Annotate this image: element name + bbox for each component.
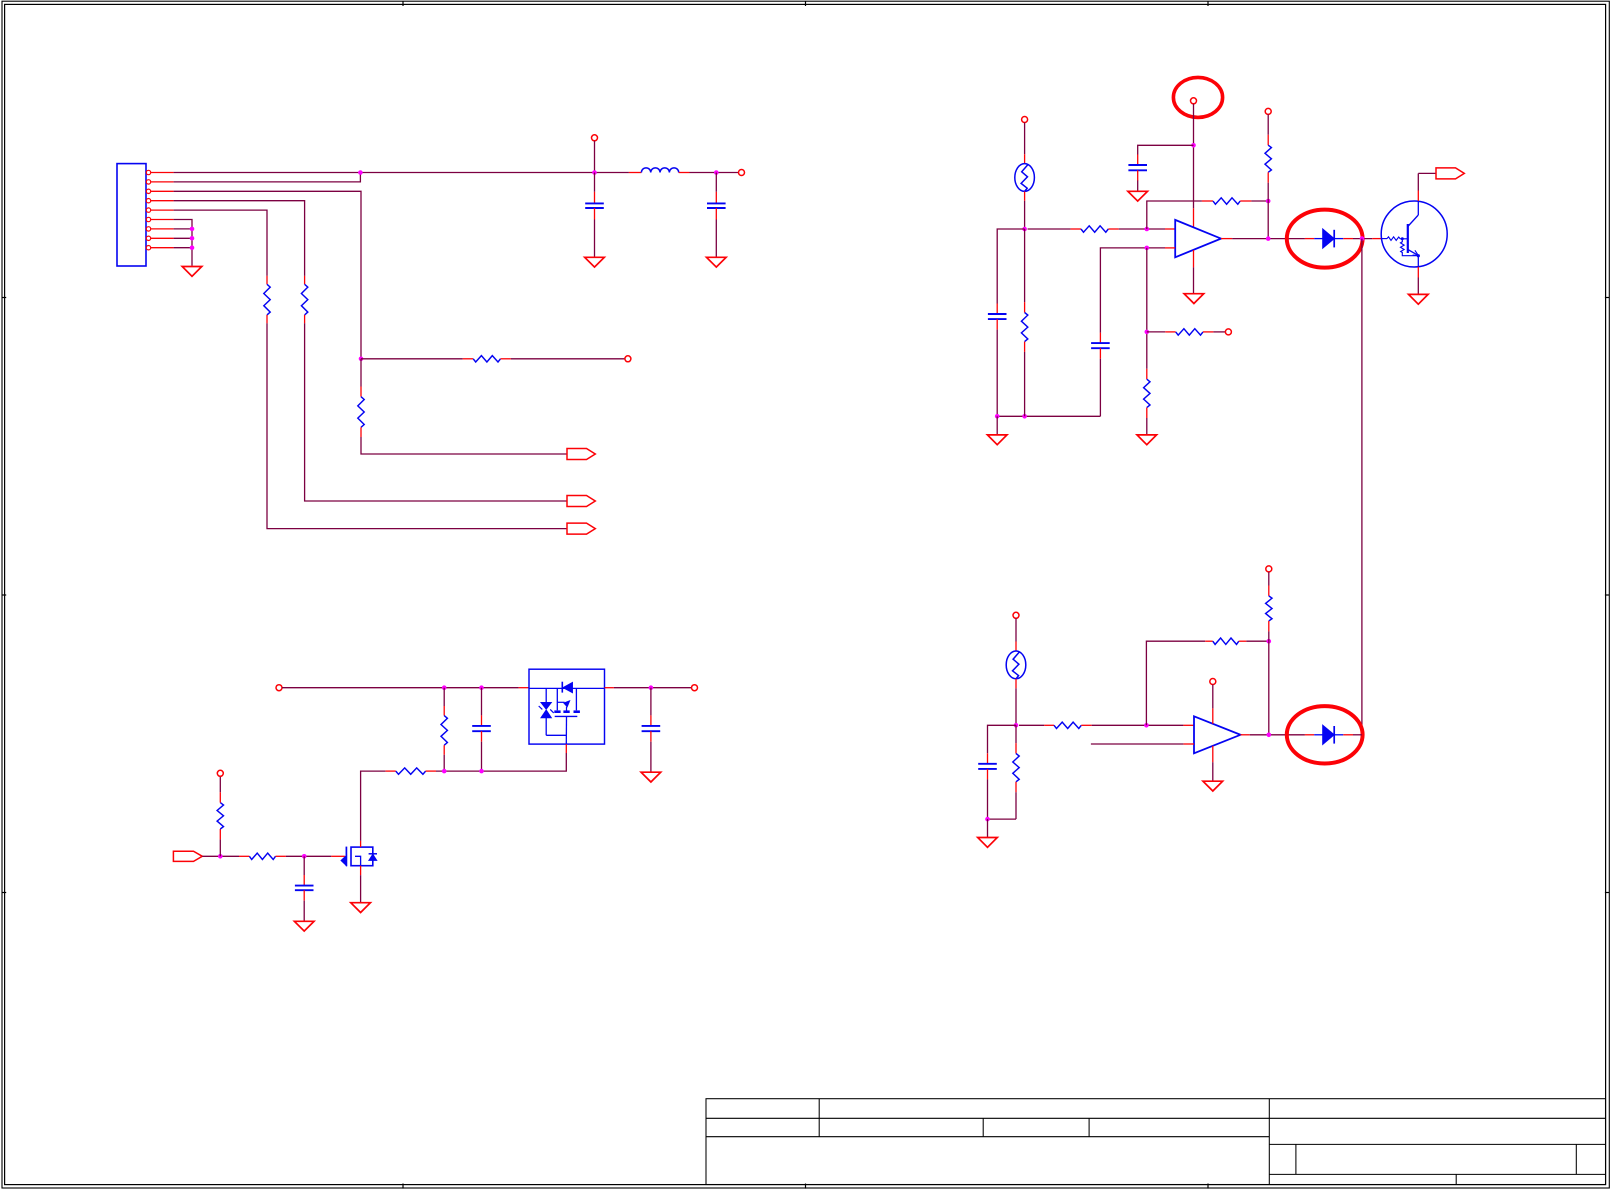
protection IC U2 pin bottom [565, 744, 567, 753]
zone tick right 1 [1605, 297, 1610, 299]
op-amp U1 [1175, 220, 1221, 257]
wire feedback2 up [1146, 641, 1205, 725]
capacitor C5 [1137, 155, 1139, 166]
inductor L1 [629, 172, 642, 174]
terminal VIN2 [276, 685, 282, 691]
terminal VOUT2 [692, 685, 698, 691]
resistor R17 input [1019, 724, 1044, 726]
title block main divider [1268, 1099, 1270, 1185]
ground C7 [294, 921, 314, 931]
node junction inv2 [1144, 723, 1149, 728]
wire terminal to rail [594, 141, 596, 173]
connector J1 pin 2 [146, 180, 150, 184]
wire L1 to C2 [690, 172, 739, 174]
node junction rail2/C3 [479, 769, 484, 774]
node junction pin7 [190, 227, 195, 232]
terminal offset [1225, 329, 1231, 335]
wire terminal to RT2 [1015, 618, 1017, 641]
zone tick top 2 [805, 1, 807, 6]
node junction pin3/R3 [359, 357, 364, 362]
wire noninv2 hanging [1091, 743, 1184, 745]
wire R1 to port [305, 323, 567, 501]
wire node B west/down [988, 725, 1017, 753]
resistor R4 [360, 359, 362, 387]
title block row line 4 (right) [1269, 1173, 1605, 1175]
transistor Q2 [331, 855, 345, 857]
zone tick bottom 1 [402, 1184, 404, 1189]
node junction feedback2 [1267, 639, 1272, 644]
wire feedback2 node down [1268, 641, 1270, 735]
title block divider E [1575, 1144, 1577, 1174]
node junction output/feedback [1266, 236, 1271, 241]
wire R11 to inv input [1119, 228, 1165, 230]
wire node down long [1361, 239, 1363, 735]
title block divider A [818, 1099, 820, 1137]
wire R3 to terminal [511, 358, 625, 360]
wire R17 to inv input [1092, 724, 1184, 726]
ground connector [182, 267, 202, 277]
resistor R7 pullup [219, 839, 221, 856]
terminal V+ supply [1191, 98, 1197, 104]
op-amp U3 inv pin [1183, 724, 1194, 726]
terminal pullup supply [217, 770, 223, 776]
title block divider B [982, 1118, 984, 1136]
op-amp U1 power pin top [1193, 208, 1195, 227]
op-amp U1 inv pin [1165, 228, 1175, 230]
node junction feedback [1266, 199, 1271, 204]
connector J1 pin 8 [146, 236, 150, 240]
ground rail2 [987, 819, 989, 837]
node junction D1/Q1 [1360, 236, 1365, 241]
title block divider C [1088, 1118, 1090, 1136]
wire feedback node down [1267, 201, 1269, 239]
wire supply to C5 [1138, 145, 1194, 154]
wire R4 to port [361, 437, 567, 454]
terminal thermistor top [1022, 117, 1028, 123]
op-amp U1 noninv pin [1165, 247, 1175, 249]
wire pin3 down [174, 191, 361, 358]
resistor R12 feedback [1202, 200, 1213, 202]
zone tick top 3 [1207, 1, 1209, 6]
capacitor C2 [715, 173, 717, 192]
node junction inv input [1145, 227, 1150, 232]
thermistor RT1 [1024, 154, 1026, 163]
node junction rail/gnd [995, 414, 1000, 419]
node junction rail/C3 [479, 685, 484, 690]
capacitor C6 [996, 304, 998, 315]
node junction rail/pin2 [358, 170, 363, 175]
node junction gate/R7 [218, 854, 223, 859]
ground op-amp U1 [1184, 294, 1204, 304]
resistor R6 [385, 770, 395, 772]
ground R15 [1137, 435, 1157, 445]
wire input rail [282, 687, 519, 689]
node B junction [1014, 723, 1019, 728]
protection IC U2 [529, 669, 605, 744]
resistor R2 [266, 276, 268, 284]
resistor R10 [1024, 229, 1026, 302]
wire Q2 source to ground [360, 875, 362, 902]
wire feedback up [1147, 201, 1202, 229]
wire R12 to output node [1251, 200, 1268, 202]
zone tick bottom 2 [805, 1184, 807, 1189]
op-amp U3 [1194, 716, 1241, 753]
connector J1 pin 9 [146, 246, 150, 250]
transistor Q1 emitter pin [1417, 267, 1419, 278]
port collector [1436, 168, 1464, 179]
resistor R15 [1146, 369, 1148, 379]
connector J1 pin 7 [146, 227, 150, 231]
wire R14 to terminal [1213, 331, 1225, 333]
wire R18 to node [1246, 640, 1268, 642]
ground C1 [585, 257, 605, 267]
ground rail [996, 416, 998, 434]
zone tick bottom 3 [1207, 1184, 1209, 1189]
ground C2 [707, 257, 727, 267]
ground op-amp U3 [1203, 781, 1223, 791]
wire pin9 stub [174, 247, 192, 249]
wire pin5 down [174, 210, 267, 276]
resistor R11 input [1028, 228, 1071, 230]
terminal sense [625, 356, 631, 362]
ground Q2 [351, 903, 371, 913]
wire noninv west [1100, 248, 1165, 333]
protection IC U2 pin left [519, 687, 529, 689]
capacitor C1 [594, 173, 596, 192]
terminal R19 top [1266, 566, 1272, 572]
ground C4 [641, 772, 661, 782]
op-amp U1 power pin bottom [1193, 250, 1195, 267]
node junction rail/R5 [442, 685, 447, 690]
node junction pin8 [190, 236, 195, 241]
node junction rail/C4 [649, 685, 654, 690]
port GATE input [173, 851, 202, 861]
capacitor C7 [303, 856, 305, 875]
port OUT3 [567, 523, 595, 534]
title block row line 2 (left) [706, 1136, 1269, 1138]
connector J1 [117, 164, 146, 266]
wire supply down [1193, 104, 1195, 209]
node junction rail/R10 [1022, 414, 1027, 419]
op-amp U3 noninv pin [1183, 743, 1194, 745]
resistor R14 offset [1147, 331, 1166, 333]
zone tick left 2 [2, 594, 7, 596]
node junction noninv [1145, 246, 1150, 251]
node A junction [1022, 227, 1027, 232]
terminal VOUT rail [739, 170, 745, 176]
op-amp U3 power pin bottom [1212, 746, 1214, 762]
wire to output terminal [614, 687, 692, 689]
wire R2 to port [267, 323, 567, 528]
wire output [1221, 238, 1232, 240]
wire RT2 to node B [1015, 688, 1017, 725]
resistor R19 [1268, 572, 1270, 586]
diode D2 [1305, 734, 1314, 736]
zone tick right 2 [1605, 594, 1610, 596]
zone tick left 1 [2, 297, 7, 299]
annotation ellipse E3 [1287, 706, 1363, 763]
node junction supply/C5 [1191, 143, 1196, 148]
port OUT1 [567, 449, 595, 460]
terminal op-amp supply [1210, 679, 1216, 685]
annotation ellipse E1 [1173, 77, 1222, 117]
resistor R18 feedback [1205, 640, 1213, 642]
zone tick left 3 [2, 892, 7, 894]
resistor R5 [443, 688, 445, 706]
node junction pin9 [190, 245, 195, 250]
zone tick top 1 [402, 1, 404, 6]
title block row line 1 [706, 1117, 1606, 1119]
node junction offset [1145, 330, 1150, 335]
wire pin6 gnd bus [174, 220, 192, 266]
title block row line 3 (right) [1269, 1143, 1605, 1145]
protection IC U2 pin right [605, 687, 614, 689]
wire node to R3 [361, 358, 463, 360]
wire pin7 stub [174, 228, 192, 230]
wire port to node [202, 855, 239, 857]
connector J1 pin 5 [146, 208, 150, 212]
node junction rail/C2 [714, 170, 719, 175]
resistor R8 series [239, 855, 249, 857]
connector J1 pin 1 [146, 170, 150, 174]
resistor R1 [304, 276, 306, 284]
ground C5 [1128, 191, 1148, 201]
wire pin1 rail [174, 172, 629, 174]
wire bottom rail [997, 415, 1100, 417]
port OUT2 [567, 496, 595, 507]
annotation ellipse E2 [1287, 210, 1363, 268]
wire RT1 to node A [1024, 201, 1026, 229]
wire noninv down [1146, 248, 1148, 369]
terminal rail supply [592, 135, 598, 141]
wire bottom rail2 [988, 818, 1017, 820]
diode D1 [1305, 238, 1314, 240]
node junction rail/C1 [592, 170, 597, 175]
thermistor RT2 [1015, 642, 1017, 652]
wire R8 to gate [286, 855, 331, 857]
capacitor C3 [481, 688, 483, 716]
wire pin2 to rail [174, 173, 361, 182]
resistor R3 [463, 358, 473, 360]
wire output2 [1241, 734, 1250, 736]
title block divider F [1455, 1174, 1457, 1184]
terminal thermistor2 top [1013, 612, 1019, 618]
node junction rail2 [985, 817, 990, 822]
wire feedback rail [436, 753, 566, 771]
wire R6 to Q2 drain [361, 771, 386, 841]
transistor Q1 collector pin [1417, 191, 1419, 202]
wire pin8 stub [174, 237, 192, 239]
connector J1 pin 3 [146, 189, 150, 193]
op-amp U3 power pin top [1212, 685, 1214, 709]
terminal R13 top [1265, 108, 1271, 114]
zone tick right 3 [1605, 892, 1610, 894]
node junction output2 [1267, 733, 1272, 738]
ground Q1 [1409, 294, 1429, 304]
wire D1 to Q1 [1353, 238, 1372, 240]
transistor Q1 [1372, 238, 1381, 240]
title block divider D [1295, 1144, 1297, 1174]
resistor R16 [1015, 725, 1017, 743]
connector J1 pin 6 [146, 217, 150, 221]
title block outline [706, 1099, 1606, 1185]
wire node A west/down [997, 229, 1024, 304]
connector J1 pin 4 [146, 199, 150, 203]
wire terminal to RT1 [1024, 123, 1026, 155]
capacitor C4 [650, 688, 652, 716]
capacitor C9 [987, 753, 989, 764]
node junction rail2/R5 [442, 769, 447, 774]
node junction gate/C7 [302, 854, 307, 859]
wire D2 to vertical [1353, 734, 1362, 736]
resistor R13 [1267, 114, 1269, 134]
capacitor C8 [1099, 333, 1101, 343]
wire pin4 down [174, 201, 305, 276]
